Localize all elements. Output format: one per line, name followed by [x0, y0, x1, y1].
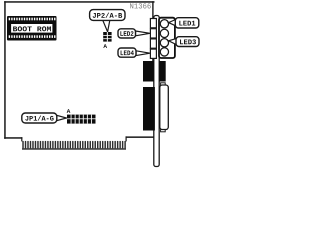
boot ROM chip pin row bottom	[9, 35, 56, 38]
boot ROM chip pin row top	[9, 18, 56, 21]
connector J2 bottom jack screw	[161, 129, 166, 131]
bracket LED hole square 3	[150, 39, 156, 48]
bracket LED hole square 4	[150, 49, 156, 58]
connector J1 part protruding through bracket	[159, 61, 165, 82]
jumper block JP2 (2 cols x 3 rows)	[103, 32, 111, 42]
card PCB outline bottom-right edge	[126, 136, 155, 138]
LED lens 1	[160, 20, 168, 28]
boot ROM label text	[13, 26, 51, 31]
LED4 callout label	[118, 48, 150, 57]
jumper JP2 pin A marker	[103, 44, 107, 48]
LED lens 3	[160, 39, 168, 47]
mounting bracket strip	[154, 16, 159, 167]
LED2 callout label	[118, 29, 150, 38]
LED3 callout label	[169, 37, 199, 47]
jumper JP1 pin A marker	[67, 109, 71, 113]
bracket LED hole square 1	[150, 19, 156, 28]
boot ROM label window	[11, 23, 54, 33]
card PCB outline bottom step right of edge connector	[126, 136, 127, 141]
board model number N1366	[130, 3, 151, 8]
connector J2 D-shell	[160, 85, 169, 130]
connector J2 top jack screw	[161, 83, 166, 85]
card PCB outline right edge	[152, 1, 153, 61]
connector J2 body on card	[143, 87, 155, 131]
connector J1 body on card	[143, 61, 154, 82]
card PCB outline top edge	[4, 1, 154, 3]
LED lens 4	[160, 48, 168, 56]
LED housing frame	[159, 18, 175, 58]
bracket LED hole square 2	[150, 29, 156, 38]
card PCB outline bottom step left of edge connector	[21, 137, 22, 141]
boot ROM chip body	[7, 16, 57, 41]
LED lens 2	[160, 29, 168, 37]
card PCB outline left edge	[4, 1, 6, 139]
jumper JP1/A-G callout label	[22, 113, 67, 123]
jumper block JP1 (2 rows x 7 cols)	[67, 115, 96, 124]
LED1 callout label	[169, 18, 199, 28]
edge connector gold fingers	[22, 141, 126, 150]
jumper JP2/A-B callout label	[90, 10, 125, 32]
card PCB outline bottom-left edge	[4, 137, 22, 139]
